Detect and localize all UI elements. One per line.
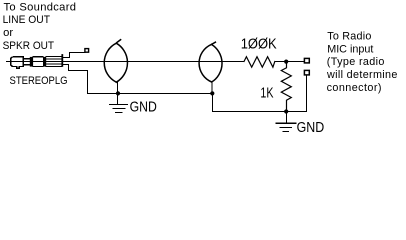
ground GND1 bars: [110, 105, 128, 113]
shield cable E1 top tick: [117, 40, 121, 43]
junction at E1 shield: [116, 91, 120, 95]
stereo plug J1 neck groove: [23, 59, 30, 65]
junction at 1K bottom: [284, 109, 288, 113]
shield cable E2 top tick: [212, 42, 215, 44]
stereo plug J1 barrel: [46, 57, 61, 67]
svg-text:STEREOPLG: STEREOPLG: [10, 75, 68, 87]
svg-text:(Type radio: (Type radio: [327, 56, 385, 68]
terminal square MIC ground: [304, 70, 309, 75]
junction at R1/R2: [284, 60, 288, 64]
junction at E2 shield: [210, 91, 214, 95]
resistor R1 100K: [244, 57, 275, 67]
wire: ground bus left: [88, 93, 213, 95]
svg-text:SPKR OUT: SPKR OUT: [3, 40, 55, 52]
stereo plug J1 ring section: [33, 57, 43, 67]
wire: E2 shield drop: [211, 82, 213, 94]
wire: ring stub to open terminal: [63, 53, 85, 58]
ground GND2 bars: [276, 123, 295, 131]
svg-text:1K: 1K: [260, 84, 273, 101]
svg-text:connector): connector): [327, 82, 382, 94]
stereo plug J1 tip: [11, 57, 24, 68]
wire: main signal line (tip axis through plug to 100K): [7, 61, 245, 63]
svg-text:MIC input: MIC input: [327, 43, 373, 55]
svg-text:GND: GND: [130, 98, 157, 115]
resistor R2 1K: [281, 62, 291, 112]
wire: sleeve to ground bus: [63, 65, 88, 94]
svg-text:GND: GND: [297, 119, 325, 136]
wire: E1 shield drop and ground stem: [117, 82, 119, 104]
wire: ground bus right: [213, 75, 307, 112]
svg-text:or: or: [3, 27, 13, 39]
svg-text:LINE OUT: LINE OUT: [3, 14, 51, 26]
terminal square MIC signal: [304, 58, 309, 63]
svg-text:To Soundcard: To Soundcard: [4, 1, 77, 13]
terminal square ring (open): [85, 49, 89, 53]
svg-text:will determine: will determine: [326, 69, 397, 81]
svg-text:To Radio: To Radio: [327, 31, 371, 43]
shield cable E2: [199, 44, 222, 82]
stereo plug J1 end bar: [61, 54, 63, 67]
wire: R1 output to terminal: [275, 61, 305, 63]
shield cable E1: [104, 43, 127, 82]
wire: ground GND2 stem: [286, 112, 288, 123]
stereo plug J1 insulator band 2: [43, 57, 46, 67]
stereo plug J1 insulator band 1: [30, 57, 33, 67]
svg-text:1ØØK: 1ØØK: [241, 36, 277, 53]
